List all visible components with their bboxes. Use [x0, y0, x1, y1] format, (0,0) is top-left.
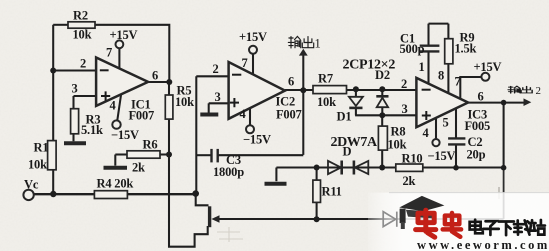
svg-text:1800p: 1800p	[213, 165, 244, 179]
svg-text:2k: 2k	[132, 161, 145, 175]
svg-text:2DW7A: 2DW7A	[331, 135, 379, 150]
svg-text:5.1k: 5.1k	[81, 123, 103, 137]
svg-text:3: 3	[215, 90, 221, 104]
svg-text:+15V: +15V	[239, 30, 267, 44]
svg-text:4: 4	[240, 107, 247, 121]
svg-text:1: 1	[315, 37, 321, 51]
svg-text:D2: D2	[375, 68, 390, 82]
svg-text:F005: F005	[465, 119, 491, 133]
svg-text:−15V: −15V	[428, 149, 456, 163]
svg-text:R1: R1	[34, 141, 49, 155]
svg-text:R7: R7	[318, 72, 333, 86]
svg-text:6: 6	[152, 69, 158, 83]
svg-text:7: 7	[242, 56, 248, 70]
svg-text:R11: R11	[322, 185, 342, 199]
svg-text:R8: R8	[391, 125, 406, 139]
svg-text:+15V: +15V	[110, 28, 138, 42]
svg-text:2: 2	[80, 57, 86, 71]
svg-text:3: 3	[72, 82, 78, 96]
svg-text:D: D	[343, 145, 352, 159]
svg-text:R2: R2	[73, 9, 88, 23]
svg-text:R6: R6	[143, 138, 158, 152]
svg-text:10k: 10k	[175, 95, 194, 109]
svg-text:R4 20k: R4 20k	[97, 177, 134, 191]
svg-text:+15V: +15V	[474, 60, 502, 74]
svg-text:20p: 20p	[467, 148, 486, 162]
svg-text:1.5k: 1.5k	[455, 42, 477, 56]
svg-text:7: 7	[106, 46, 112, 60]
svg-text:7: 7	[455, 75, 461, 89]
svg-text:www.eeworm.com: www.eeworm.com	[417, 238, 549, 251]
svg-text:Vc: Vc	[24, 178, 39, 192]
svg-text:F007: F007	[276, 108, 302, 122]
svg-text:R10: R10	[402, 152, 423, 166]
svg-text:10k: 10k	[317, 95, 336, 109]
svg-text:4: 4	[110, 99, 117, 113]
svg-text:−15V: −15V	[243, 133, 271, 147]
svg-text:D1: D1	[337, 110, 352, 124]
svg-text:IC2: IC2	[276, 95, 296, 109]
svg-text:6: 6	[478, 90, 484, 104]
svg-text:2: 2	[213, 62, 219, 76]
svg-text:500p: 500p	[400, 42, 425, 56]
svg-text:3: 3	[402, 102, 408, 116]
svg-text:−15V: −15V	[111, 128, 139, 142]
svg-text:10k: 10k	[388, 138, 407, 152]
svg-text:1: 1	[419, 60, 425, 74]
svg-text:8: 8	[438, 69, 444, 83]
svg-text:2: 2	[536, 85, 542, 97]
svg-text:4: 4	[423, 126, 430, 140]
svg-text:6: 6	[288, 75, 294, 89]
svg-text:5: 5	[443, 116, 449, 130]
svg-text:2: 2	[401, 77, 407, 91]
svg-text:2k: 2k	[403, 174, 416, 188]
svg-text:F007: F007	[129, 109, 155, 123]
svg-text:10k: 10k	[73, 28, 92, 42]
svg-text:10k: 10k	[28, 158, 47, 172]
